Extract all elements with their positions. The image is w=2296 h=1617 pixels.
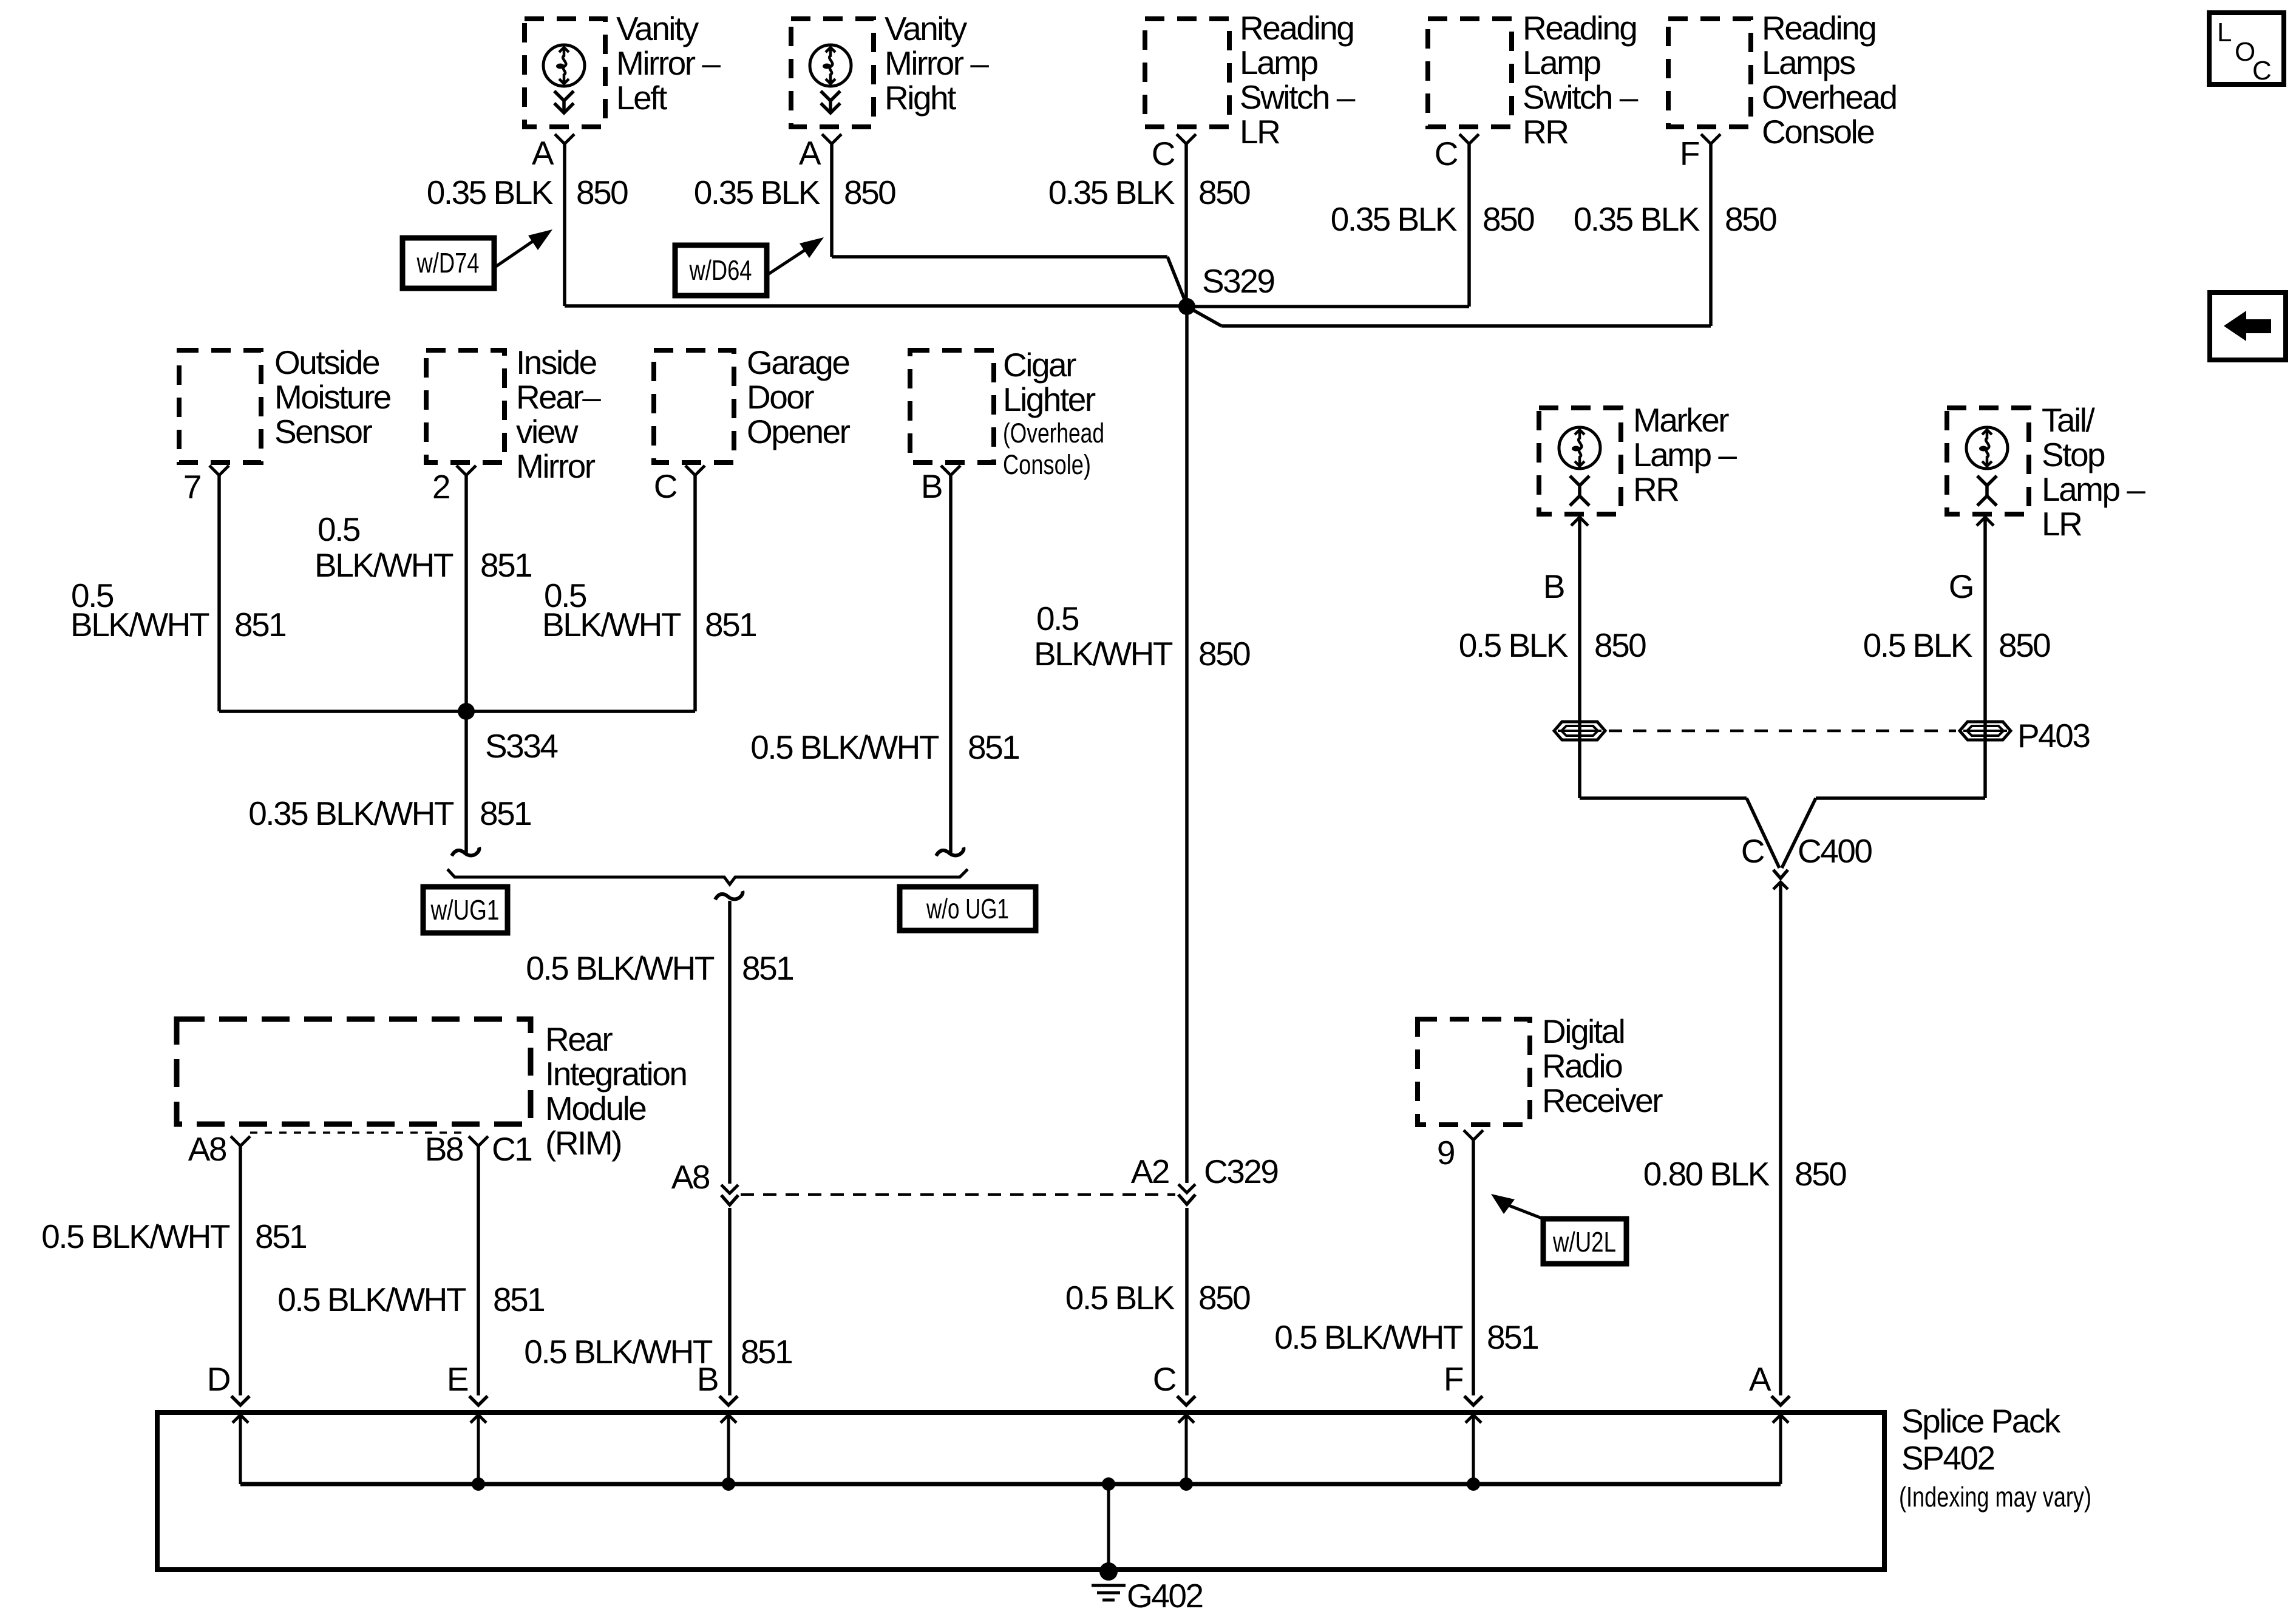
svg-text:Digital: Digital [1542, 1012, 1624, 1050]
svg-text:0.35 BLK: 0.35 BLK [694, 174, 821, 211]
svg-text:Lamps: Lamps [1762, 44, 1855, 81]
svg-text:B: B [921, 467, 942, 505]
svg-text:SP402: SP402 [1901, 1439, 1994, 1477]
svg-text:A: A [799, 134, 821, 172]
svg-text:Integration: Integration [545, 1055, 686, 1093]
svg-text:C: C [1741, 832, 1764, 870]
svg-text:851: 851 [742, 949, 793, 987]
svg-text:view: view [516, 413, 579, 450]
svg-text:851: 851 [705, 606, 756, 643]
svg-text:Reading: Reading [1240, 9, 1353, 47]
svg-text:851: 851 [255, 1218, 306, 1255]
svg-text:S334: S334 [485, 727, 557, 765]
svg-text:Mirror –: Mirror – [885, 44, 989, 82]
svg-text:G402: G402 [1127, 1577, 1203, 1615]
svg-text:Right: Right [885, 79, 956, 117]
svg-text:850: 850 [1795, 1155, 1846, 1193]
svg-text:C1: C1 [492, 1130, 531, 1168]
svg-text:Outside: Outside [274, 344, 379, 381]
svg-text:C: C [1153, 1360, 1176, 1398]
svg-text:(Overhead: (Overhead [1003, 418, 1104, 449]
svg-text:0.5 BLK/WHT: 0.5 BLK/WHT [524, 1333, 713, 1371]
svg-text:0.5 BLK/WHT: 0.5 BLK/WHT [1274, 1318, 1463, 1356]
svg-text:850: 850 [1198, 635, 1250, 673]
svg-text:Vanity: Vanity [616, 10, 699, 47]
svg-text:0.35 BLK: 0.35 BLK [1331, 200, 1458, 238]
svg-text:Mirror: Mirror [516, 447, 596, 485]
svg-text:w/o UG1: w/o UG1 [926, 893, 1009, 924]
svg-text:A8: A8 [188, 1130, 226, 1168]
svg-text:Receiver: Receiver [1542, 1082, 1663, 1119]
svg-text:RR: RR [1633, 470, 1679, 508]
svg-text:w/D64: w/D64 [689, 254, 752, 286]
svg-text:BLK/WHT: BLK/WHT [314, 546, 453, 584]
svg-text:Lamp: Lamp [1240, 44, 1317, 81]
svg-text:850: 850 [1483, 200, 1534, 238]
svg-text:0.35 BLK: 0.35 BLK [1574, 200, 1700, 238]
svg-text:A8: A8 [671, 1158, 710, 1196]
svg-text:Inside: Inside [516, 344, 597, 381]
svg-text:w/D74: w/D74 [416, 247, 480, 279]
svg-text:Console): Console) [1003, 449, 1091, 480]
svg-text:C329: C329 [1204, 1153, 1277, 1190]
svg-text:C: C [1435, 135, 1458, 172]
svg-text:RR: RR [1523, 113, 1568, 151]
svg-text:w/UG1: w/UG1 [430, 894, 500, 926]
svg-text:Cigar: Cigar [1003, 346, 1076, 384]
svg-text:Module: Module [545, 1090, 646, 1127]
svg-text:850: 850 [844, 174, 895, 211]
svg-text:Lamp: Lamp [1523, 44, 1600, 81]
svg-text:Overhead: Overhead [1762, 78, 1897, 116]
svg-text:A: A [1749, 1360, 1771, 1398]
svg-text:0.80 BLK: 0.80 BLK [1643, 1155, 1770, 1193]
svg-text:Splice Pack: Splice Pack [1901, 1402, 2061, 1440]
svg-text:Opener: Opener [747, 413, 851, 450]
svg-text:LR: LR [2042, 505, 2082, 543]
svg-text:850: 850 [1999, 626, 2050, 664]
svg-text:9: 9 [1437, 1134, 1454, 1171]
svg-text:851: 851 [1487, 1318, 1538, 1356]
svg-text:851: 851 [234, 606, 285, 643]
svg-text:Lamp –: Lamp – [2042, 470, 2145, 508]
svg-text:Reading: Reading [1762, 9, 1875, 47]
svg-text:Left: Left [616, 79, 667, 117]
svg-text:851: 851 [493, 1281, 544, 1318]
svg-text:Vanity: Vanity [885, 10, 968, 47]
svg-text:851: 851 [968, 728, 1019, 766]
svg-text:L: L [2217, 18, 2232, 47]
svg-text:850: 850 [1594, 626, 1646, 664]
svg-text:0.5 BLK/WHT: 0.5 BLK/WHT [41, 1218, 230, 1255]
svg-text:C400: C400 [1798, 832, 1872, 870]
svg-text:Radio: Radio [1542, 1047, 1622, 1085]
svg-text:A2: A2 [1131, 1153, 1169, 1190]
svg-text:LR: LR [1240, 113, 1280, 151]
svg-text:0.35 BLK: 0.35 BLK [427, 174, 554, 211]
svg-text:P403: P403 [2017, 717, 2090, 754]
svg-text:BLK/WHT: BLK/WHT [1034, 635, 1173, 673]
svg-text:Marker: Marker [1633, 401, 1729, 439]
svg-text:Switch –: Switch – [1240, 78, 1356, 116]
svg-text:Reading: Reading [1523, 9, 1636, 47]
svg-text:(RIM): (RIM) [545, 1124, 621, 1162]
svg-text:0.5 BLK: 0.5 BLK [1459, 626, 1569, 664]
svg-text:F: F [1680, 135, 1699, 172]
svg-text:B: B [1543, 568, 1564, 605]
svg-text:D: D [207, 1360, 230, 1398]
svg-text:A: A [532, 134, 554, 172]
svg-text:Tail/: Tail/ [2042, 401, 2096, 439]
svg-text:2: 2 [432, 468, 449, 506]
svg-text:BLK/WHT: BLK/WHT [542, 606, 681, 643]
svg-text:Mirror –: Mirror – [616, 44, 721, 82]
svg-text:E: E [447, 1360, 468, 1398]
svg-text:(Indexing may vary): (Indexing may vary) [1899, 1481, 2091, 1513]
svg-text:0.5: 0.5 [1036, 600, 1079, 637]
svg-text:B8: B8 [425, 1130, 463, 1168]
svg-text:851: 851 [480, 546, 531, 584]
svg-text:BLK/WHT: BLK/WHT [70, 606, 209, 643]
svg-text:Rear: Rear [545, 1020, 613, 1058]
svg-text:Moisture: Moisture [274, 378, 391, 416]
svg-text:Door: Door [747, 378, 814, 416]
svg-text:C: C [2252, 56, 2272, 86]
svg-text:C: C [1152, 135, 1175, 172]
svg-text:850: 850 [1198, 1279, 1250, 1317]
svg-text:0.5 BLK/WHT: 0.5 BLK/WHT [750, 728, 939, 766]
svg-text:851: 851 [480, 795, 531, 832]
svg-text:7: 7 [183, 468, 200, 506]
svg-text:Sensor: Sensor [274, 413, 372, 450]
svg-text:0.5 BLK/WHT: 0.5 BLK/WHT [277, 1281, 466, 1318]
svg-text:0.5 BLK: 0.5 BLK [1863, 626, 1973, 664]
svg-text:0.5: 0.5 [318, 510, 360, 548]
svg-text:Console: Console [1762, 113, 1874, 151]
svg-text:F: F [1444, 1360, 1463, 1398]
svg-text:0.35 BLK/WHT: 0.35 BLK/WHT [248, 795, 454, 832]
svg-text:w/U2L: w/U2L [1552, 1226, 1616, 1258]
svg-text:0.5 BLK: 0.5 BLK [1065, 1279, 1175, 1317]
svg-text:S329: S329 [1202, 262, 1274, 300]
svg-text:Switch –: Switch – [1523, 78, 1639, 116]
svg-text:0.5 BLK/WHT: 0.5 BLK/WHT [526, 949, 715, 987]
svg-text:850: 850 [1198, 174, 1250, 211]
svg-text:G: G [1949, 568, 1973, 605]
svg-text:Garage: Garage [747, 344, 849, 381]
svg-text:C: C [654, 467, 677, 505]
svg-text:Rear–: Rear– [516, 378, 601, 416]
svg-text:Lighter: Lighter [1003, 381, 1096, 418]
svg-text:Stop: Stop [2042, 436, 2105, 473]
svg-text:Lamp –: Lamp – [1633, 436, 1737, 473]
svg-text:850: 850 [1725, 200, 1776, 238]
svg-text:851: 851 [741, 1333, 792, 1371]
svg-text:850: 850 [576, 174, 628, 211]
svg-text:0.35 BLK: 0.35 BLK [1048, 174, 1175, 211]
